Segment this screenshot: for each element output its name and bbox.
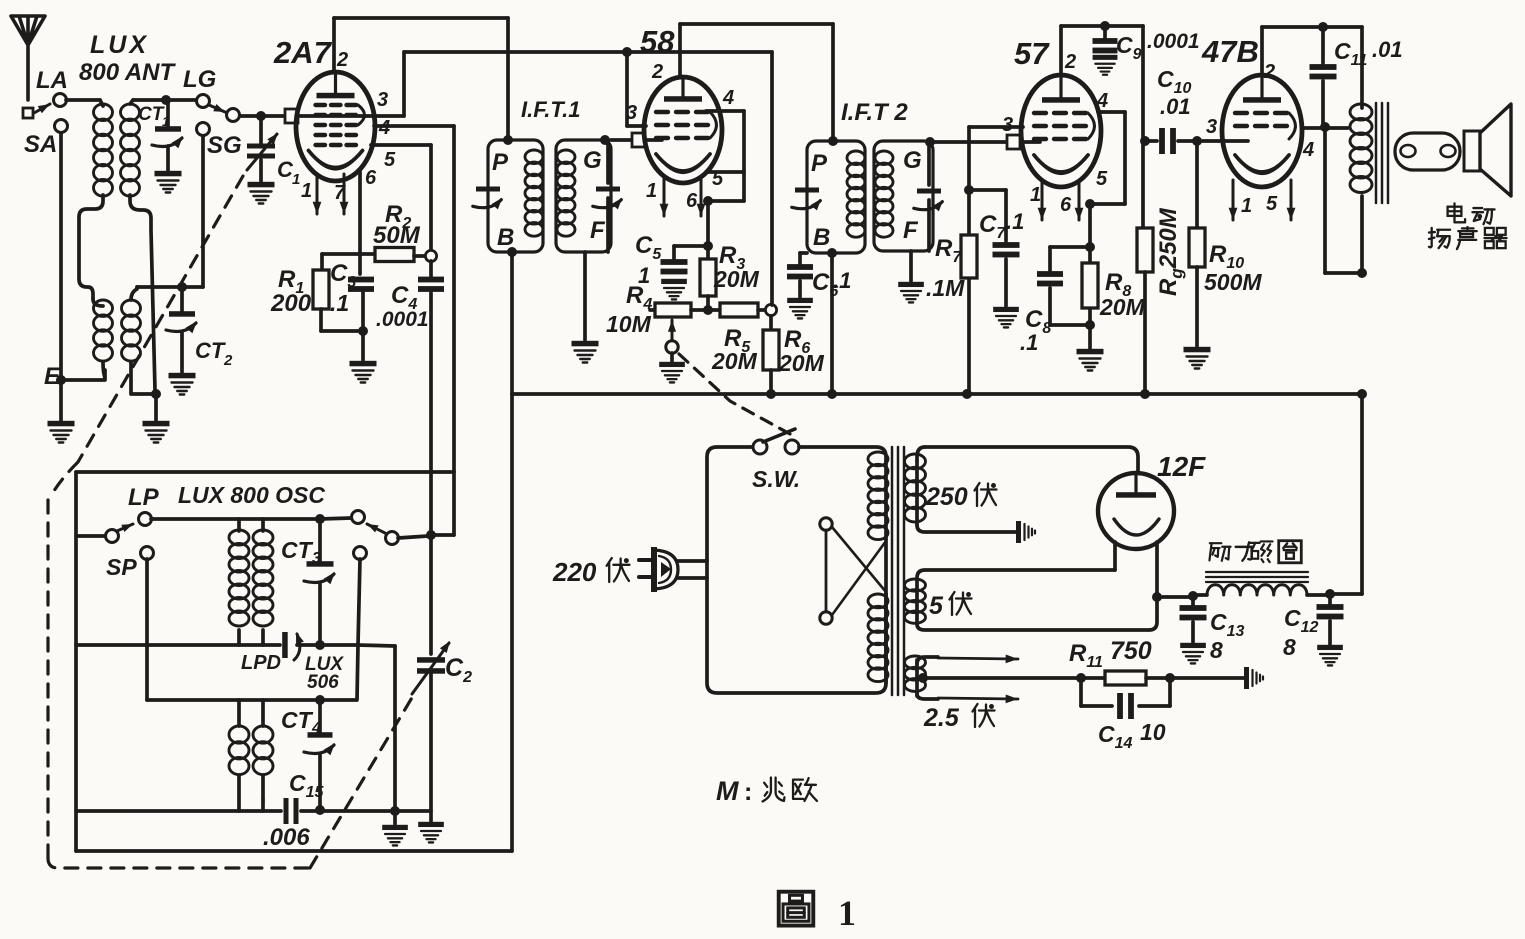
coil L-ant primary (upper left winding): [94, 104, 113, 121]
wire IFT2 F to ground: [909, 251, 913, 281]
grid cap square on 57: [1007, 135, 1020, 149]
node C12: [1325, 589, 1335, 599]
caption figure 1: [779, 892, 814, 926]
ground below C1: [248, 182, 275, 188]
svg-text:3: 3: [377, 89, 388, 111]
trimmer capacitor CT2: [180, 287, 184, 311]
ground below C7: [993, 307, 1019, 312]
svg-text:CT: CT: [138, 104, 165, 125]
switch contact LA: [34, 104, 50, 113]
svg-text::: :: [744, 778, 752, 806]
ground below mid: [393, 811, 397, 824]
capacitor C15 .006: [284, 798, 289, 824]
wire SG down to lower winding: [201, 136, 205, 287]
ground below R8: [1077, 349, 1104, 355]
wire cathode down to R3 C5: [706, 201, 710, 243]
voltage tap contacts: [820, 518, 832, 530]
wire primary top right: [799, 447, 886, 461]
node C9: [1100, 21, 1110, 31]
node IFT1 G top: [600, 135, 610, 145]
svg-text:800 ANT: 800 ANT: [79, 59, 176, 86]
R4 slider arrow and contact: [671, 320, 674, 341]
ground below C2: [418, 822, 444, 827]
svg-text:M: M: [716, 776, 739, 806]
svg-text:2: 2: [1263, 61, 1275, 83]
node E: [56, 375, 66, 385]
coil lower-right winding: [122, 300, 141, 316]
svg-text:10: 10: [1140, 719, 1166, 745]
node CT4 bottom: [315, 805, 325, 815]
node bus Rg: [1140, 389, 1150, 399]
IFT2 secondary box G F: [874, 141, 933, 251]
ground below C13: [1180, 643, 1206, 648]
wire 58 plate pin2 rail to IFT2: [678, 24, 682, 77]
wire 2A7 pin4 down to oscillator: [374, 124, 454, 128]
node R8 bottom: [1085, 320, 1095, 330]
IFT1 secondary coil: [557, 150, 575, 164]
wire top rail down to IFT1 P: [506, 18, 510, 140]
svg-text:.0001: .0001: [376, 308, 429, 331]
wire IFT1 F to ground: [583, 252, 587, 340]
heater pins arrows 47B: [1232, 180, 1235, 220]
svg-text:8: 8: [1210, 637, 1223, 663]
ground below R10: [1184, 347, 1211, 353]
capacitor C6 .1: [800, 251, 807, 255]
transformer core: [891, 447, 894, 695]
heater pins arrows 58: [663, 176, 666, 216]
svg-text:LUX 800 OSC: LUX 800 OSC: [178, 482, 325, 508]
svg-text:.01: .01: [1372, 37, 1403, 62]
svg-text:47B: 47B: [1201, 34, 1259, 69]
IFT1 primary coil: [525, 150, 543, 164]
capacitor C11 .01: [1321, 27, 1325, 63]
svg-text:SG: SG: [207, 132, 242, 159]
svg-text:500M: 500M: [1204, 269, 1262, 295]
node bus IFT2: [827, 389, 837, 399]
field coil core lines: [1206, 571, 1308, 573]
wire lower-left coil bottom to E node: [63, 362, 105, 380]
svg-text:E: E: [44, 363, 61, 390]
resistor R8 20M: [1082, 263, 1098, 308]
wire 2A7 pin3 to screen rail: [298, 114, 404, 118]
wire upper-right coil bottom down: [130, 195, 155, 390]
ground E: [59, 380, 63, 420]
svg-text:2A7: 2A7: [273, 35, 333, 70]
osc coil lower windings: [237, 700, 241, 726]
trimmer capacitor CT1: [166, 100, 170, 126]
switch right contacts: [320, 518, 351, 519]
capacitor C10 .01: [1145, 139, 1157, 143]
ground below C9: [1093, 55, 1118, 60]
IFT2 primary coil: [847, 151, 865, 165]
dashed gang line from C1 to oscillator: [78, 176, 243, 462]
ground below C5: [661, 279, 687, 284]
wires plug to primary: [678, 559, 707, 563]
capacitor C3 .1: [348, 277, 374, 283]
svg-text:4: 4: [311, 720, 321, 737]
svg-text:50M: 50M: [373, 222, 421, 249]
svg-text:F: F: [590, 217, 606, 244]
ground below C6: [787, 298, 813, 303]
grid cap square on 58: [632, 133, 645, 147]
ground below C3: [350, 361, 377, 367]
node C8 top: [1085, 242, 1095, 252]
wire IFT1 B down to osc: [510, 394, 514, 851]
output transformer core: [1375, 103, 1378, 203]
svg-text:LP: LP: [128, 484, 160, 511]
capacitor C12 8: [1328, 595, 1332, 604]
node output transformer bottom: [1357, 268, 1367, 278]
label dian-dong yang-sheng-qi speaker: [1453, 203, 1455, 216]
node cathode junction: [358, 326, 368, 336]
svg-text:.1: .1: [833, 268, 851, 293]
node C10 left: [1140, 136, 1150, 146]
node CT3 top: [315, 514, 325, 524]
node CT2: [177, 282, 187, 292]
wire 2A7 plate pin2 to top rail: [332, 18, 336, 72]
node CT1 junction: [161, 95, 171, 105]
svg-text:1: 1: [292, 171, 300, 188]
IFT2 secondary coil: [875, 151, 893, 165]
svg-text:3: 3: [1206, 116, 1217, 138]
wire 58 pin3 from screen rail: [625, 52, 629, 126]
wire main bus: [512, 392, 1362, 396]
ground below CT1: [155, 171, 182, 177]
wire 47B pin4 to output transformer: [1302, 126, 1348, 130]
wire upper-left coil bottom bracket: [79, 195, 103, 299]
wire 58 pin4 bracket: [706, 109, 744, 113]
svg-text:20M: 20M: [713, 266, 760, 292]
svg-text:G: G: [903, 147, 922, 174]
IFT1 primary trimmer on left edge: [476, 187, 500, 192]
250V winding: [915, 461, 919, 525]
wire C9 rail down to Rg C10: [1141, 26, 1145, 141]
heater pins arrows 57: [1041, 180, 1044, 220]
tap crossover wires: [832, 527, 886, 592]
node LPD right: [315, 640, 325, 650]
antenna: [11, 16, 45, 100]
wire R11 to chassis: [1146, 676, 1244, 680]
wire 47B plate pin2 top: [1260, 27, 1264, 75]
wire bottom return: [76, 849, 512, 853]
svg-text:5: 5: [1266, 193, 1278, 215]
tube 12F rectifier: [1098, 473, 1174, 549]
svg-text:.1: .1: [1006, 209, 1024, 234]
svg-text:CT: CT: [281, 707, 314, 733]
svg-text:B: B: [813, 224, 830, 251]
wire LG switch to C1 node: [240, 114, 283, 118]
node 2.5V tap: [918, 673, 928, 683]
capacitor C7 .1: [993, 242, 1020, 248]
variable capacitor C1 (tuning): [259, 121, 263, 143]
node IFT2 P top: [828, 136, 838, 146]
svg-text:10M: 10M: [606, 311, 652, 337]
label field coil li-li-ci-quan: [1210, 542, 1221, 544]
svg-text:B: B: [497, 224, 514, 251]
field coil winding: [1193, 593, 1207, 597]
switch contact LG: [197, 95, 210, 108]
wire to C7: [969, 188, 1006, 192]
svg-text:LPD: LPD: [241, 652, 281, 674]
wire 57 plate pin2 top: [1059, 26, 1063, 75]
svg-text:5: 5: [1096, 168, 1108, 190]
IFT2 primary box P B: [807, 141, 865, 253]
2.5V filament winding: [917, 657, 938, 664]
wire left return side: [74, 472, 78, 851]
tube 57: [1021, 75, 1101, 187]
svg-text:3: 3: [312, 550, 321, 567]
wire 57 pin3 to R7 line: [969, 125, 1023, 129]
svg-text:200: 200: [270, 290, 312, 317]
wire y811 to C2 line: [395, 809, 431, 813]
svg-text:20M: 20M: [711, 348, 758, 374]
node R11 left: [1076, 673, 1086, 683]
resistor R11 750: [1105, 671, 1146, 685]
svg-text:250: 250: [925, 483, 968, 511]
node bus R6: [766, 389, 776, 399]
svg-text:.0001: .0001: [1147, 30, 1200, 53]
trimmer CT4: [318, 700, 322, 732]
wire 57 pin4 bracket: [1098, 110, 1125, 114]
wire 12F filament left: [1113, 542, 1117, 570]
svg-text:1: 1: [646, 180, 657, 202]
dashed gang line to SW: [679, 354, 790, 434]
wire SA down to E ground: [59, 133, 63, 378]
svg-text:2: 2: [336, 49, 348, 71]
wire bottom line with C15: [76, 809, 281, 813]
svg-text:.1: .1: [330, 290, 349, 316]
node osc ground mid: [390, 806, 400, 816]
speaker voice coil capsule: [1395, 133, 1460, 170]
wire IFT1 G to 58 grid cap: [611, 138, 632, 142]
svg-text:5: 5: [384, 149, 396, 171]
svg-text:220: 220: [552, 557, 597, 587]
terminal SA: [55, 120, 68, 133]
node R11 right: [1165, 673, 1175, 683]
wire cathode down: [1088, 204, 1092, 325]
node C10 right: [1192, 136, 1202, 146]
wire LP line to coil: [151, 517, 320, 521]
wire primary box left and bottom: [707, 447, 753, 560]
node C13: [1188, 591, 1198, 601]
node 57 cathode: [1085, 199, 1095, 209]
node IFT2 G top: [925, 137, 935, 147]
svg-text:F: F: [903, 217, 919, 244]
wire lower-left coil top hook: [93, 299, 103, 306]
wire 2A7 pin5 to R2 C4 line: [371, 143, 431, 147]
ground below lower windings: [154, 394, 158, 420]
capacitor C5 .1: [661, 259, 688, 265]
svg-text:.006: .006: [263, 824, 310, 851]
ground below IFT1 F: [572, 341, 599, 347]
grid leak terminal circle: [425, 250, 436, 261]
IFT2 secondary trimmer: [927, 141, 931, 185]
osc coil upper windings: [237, 519, 241, 531]
svg-text:P: P: [492, 149, 509, 176]
svg-text:506: 506: [307, 672, 339, 693]
node IFT2 B bottom: [827, 248, 837, 258]
output transformer primary coil: [1360, 27, 1364, 108]
resistor R1 200: [320, 254, 324, 270]
svg-text:1: 1: [301, 180, 312, 202]
IFT1 secondary box G F: [556, 140, 611, 252]
wire right contact to C2 line: [398, 536, 428, 538]
svg-text:I.F.T.1: I.F.T.1: [521, 97, 581, 122]
svg-text:1: 1: [1241, 195, 1252, 217]
node C1: [256, 111, 266, 121]
svg-text:5: 5: [929, 592, 944, 620]
wire SP down to lower winding: [145, 559, 149, 700]
node 12F output: [1152, 592, 1162, 602]
svg-text:.01: .01: [1160, 94, 1191, 119]
svg-text:6: 6: [365, 167, 377, 189]
wire 12F filament right: [1155, 542, 1159, 597]
svg-text:S.W.: S.W.: [752, 466, 800, 492]
svg-text:G: G: [583, 147, 602, 174]
wire IFT1 B to bus: [510, 252, 514, 394]
wire 58 pin5: [706, 170, 744, 174]
trimmer CT3: [318, 519, 322, 561]
node bus right: [1357, 389, 1367, 399]
svg-text:4: 4: [722, 87, 734, 109]
svg-text:2.5: 2.5: [923, 704, 960, 732]
capacitor C13 8: [1191, 597, 1195, 605]
ground below C12: [1317, 645, 1343, 650]
dashed diagonal to C2: [310, 696, 413, 868]
wire to C5: [674, 244, 708, 248]
arrow 2.5V lower: [938, 698, 1018, 699]
svg-text:P: P: [811, 150, 828, 177]
node 58 pin3 branch: [622, 47, 632, 57]
svg-text:4: 4: [1302, 139, 1314, 161]
primary winding straight section: [884, 539, 888, 594]
wire 2.5V tap to R11: [923, 676, 1105, 680]
svg-text:LUX: LUX: [90, 31, 149, 59]
mains plug 220V: [651, 547, 657, 592]
capacitor C8 .1 loop: [1050, 245, 1090, 249]
svg-text:8: 8: [1283, 634, 1296, 660]
resistor R3 20M: [706, 246, 710, 259]
wire to C13 field coil: [1157, 595, 1190, 599]
primary winding lower half: [884, 594, 888, 683]
svg-text:57: 57: [1014, 36, 1050, 71]
svg-text:.1: .1: [1020, 330, 1038, 355]
node 58 cathode junction: [703, 196, 713, 206]
terminal SG: [197, 123, 210, 136]
wire 2A7 pin6 cathode down: [358, 172, 362, 274]
capacitor C9 .0001: [1103, 26, 1107, 38]
wire osc feed from 2A7 pin4: [76, 470, 454, 474]
resistor R10 500M: [1195, 141, 1199, 228]
svg-text:6: 6: [1060, 194, 1072, 216]
IFT2 primary trimmer on left edge: [795, 188, 819, 193]
svg-text:.1M: .1M: [926, 275, 965, 301]
padder capacitor LPD: [282, 632, 288, 658]
resistor R5 20M: [691, 308, 720, 312]
terminal alt contact: [354, 547, 367, 560]
node C7 branch: [964, 185, 974, 195]
svg-text:CT: CT: [281, 537, 314, 563]
svg-text:2: 2: [223, 352, 233, 369]
node IFT1 B bottom: [507, 247, 517, 257]
chassis tap heater: [1244, 667, 1249, 689]
switch SW arm: [763, 429, 795, 442]
svg-text:4: 4: [1096, 90, 1108, 112]
wire coil top to LG node: [130, 100, 133, 104]
svg-text:750: 750: [1110, 637, 1152, 665]
svg-text:CT: CT: [195, 338, 226, 363]
svg-text:1: 1: [1030, 184, 1041, 206]
dashed gang bottom: [48, 858, 310, 868]
node lower ground: [151, 389, 161, 399]
wire 250V center tap: [917, 525, 1016, 532]
capacitor C4 .0001: [429, 261, 433, 276]
svg-text:4: 4: [378, 117, 390, 139]
terminal circle R5 right: [765, 304, 776, 315]
wire C11 bottom down to speaker return: [1323, 128, 1327, 273]
wire 250V secondary top: [925, 447, 1138, 473]
coil lower-left winding: [94, 300, 113, 316]
resistor Rg 250M: [1137, 228, 1153, 272]
arrow 2.5V upper: [938, 658, 1018, 659]
node C2 top: [426, 530, 436, 540]
switch contact LP: [76, 534, 105, 538]
tube 58: [644, 77, 722, 183]
svg-text:SA: SA: [24, 131, 57, 158]
grid cap square on 2A7: [285, 109, 298, 123]
wire LA to coil: [66, 98, 100, 102]
ground below R4 slider: [670, 353, 674, 361]
svg-text:2: 2: [651, 61, 663, 83]
resistor R6 20M: [769, 316, 773, 330]
ground below CT2: [169, 373, 196, 379]
wire right edge down to field coil: [1360, 394, 1364, 594]
svg-text:1: 1: [162, 114, 169, 129]
capacitor C14 10 loop: [1079, 678, 1083, 706]
wire 5V secondary: [917, 570, 1115, 580]
node C11 bottom: [1320, 122, 1330, 132]
resistor R7 .1M: [961, 235, 977, 278]
svg-text:20M: 20M: [778, 350, 825, 376]
node R3 R4 R5: [703, 305, 713, 315]
svg-text:Rg250M: Rg250M: [1155, 207, 1186, 296]
dashed gang left vertical: [46, 500, 49, 858]
node C11: [1318, 22, 1328, 32]
wire IFT2 B to bus: [830, 253, 834, 394]
node CT4 top: [315, 695, 325, 705]
wire screen rail down R6 line: [770, 52, 774, 305]
node IFT1 P top: [503, 135, 513, 145]
wire C10 to 47B grid pin3: [1197, 139, 1248, 143]
svg-text:SP: SP: [106, 554, 137, 580]
switch SW contacts: [753, 440, 767, 454]
variable capacitor C2: [417, 657, 445, 663]
wire R8 to ground: [1088, 325, 1092, 348]
svg-text:I.F.T 2: I.F.T 2: [841, 99, 908, 126]
speaker driver: [1464, 131, 1480, 171]
IFT1 secondary trimmer: [606, 140, 610, 183]
svg-text:2: 2: [1064, 51, 1076, 73]
svg-text:LG: LG: [183, 66, 216, 93]
wire lower-right coil bottom to ground node: [131, 362, 152, 394]
wire IFT2 G to 57 grid cap: [933, 140, 1007, 144]
primary winding upper half: [884, 461, 888, 539]
coil L-ant upper right winding: [121, 104, 140, 121]
IFT1 primary box P B: [488, 140, 543, 252]
node C5 R3: [703, 241, 713, 251]
tube 47B: [1222, 75, 1302, 187]
wire LPD line: [76, 643, 280, 647]
